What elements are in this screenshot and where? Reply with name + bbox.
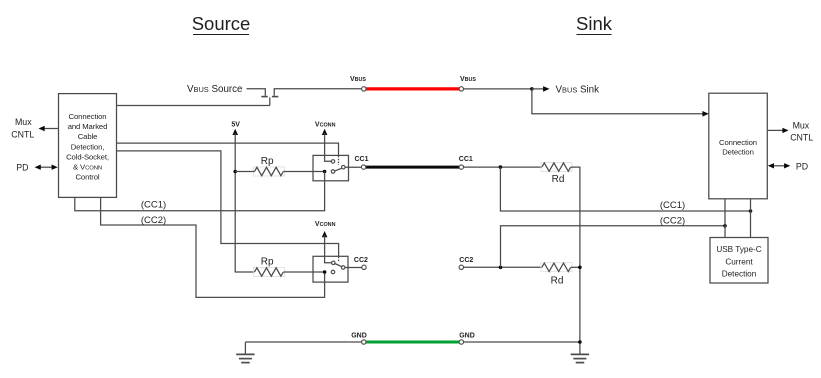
power VCONN (CC1)	[315, 122, 336, 135]
node CC1 source side	[354, 156, 368, 170]
node GND sink side	[459, 333, 475, 345]
wire Mux CNTL arrow (sink)	[767, 128, 788, 133]
svg-text:VBUS Sink: VBUS Sink	[556, 84, 600, 95]
wire Rp1 to SW1	[283, 171, 324, 173]
svg-text:Control: Control	[75, 173, 99, 182]
junction VBUS sink	[530, 87, 534, 91]
node VBUS sink side	[459, 76, 476, 91]
transistor Q1 VBUS pass FET	[261, 88, 278, 105]
switch SW1 (CC1)	[313, 155, 349, 180]
svg-text:(CC2): (CC2)	[660, 215, 685, 226]
wire U2 to U3 left	[724, 199, 726, 238]
cable CC1 (black)	[366, 166, 460, 169]
svg-text:GND: GND	[459, 333, 475, 340]
svg-text:Mux: Mux	[15, 117, 32, 127]
node CC2 sink side	[459, 257, 473, 270]
svg-text:VCONN: VCONN	[315, 221, 336, 228]
resistor Rp (CC2)	[254, 256, 285, 276]
wire U2 to U3 right	[750, 199, 752, 238]
svg-text:CC2: CC2	[459, 257, 473, 264]
svg-text:Current: Current	[725, 257, 753, 266]
junction (CC2) at U2	[723, 224, 727, 228]
wire 5V to Rp1	[235, 171, 254, 173]
svg-text:VBUS: VBUS	[460, 76, 476, 83]
svg-text:Sink: Sink	[576, 13, 613, 34]
ground (source)	[236, 342, 254, 363]
svg-text:(CC1): (CC1)	[660, 200, 685, 211]
svg-text:CC2: CC2	[354, 257, 368, 264]
svg-text:CC1: CC1	[459, 156, 473, 163]
block U1 Connection and Marked Cable Detection Cold-Socket and VCONN Control	[59, 94, 117, 198]
wire (CC1) sense sink side	[500, 167, 750, 211]
junction Rp2 CC2 sense	[323, 270, 327, 274]
wire VCONN into SW2	[325, 235, 332, 263]
svg-text:Rd: Rd	[551, 276, 564, 287]
junction Rd2 ground rail	[578, 266, 582, 270]
svg-text:5V: 5V	[231, 122, 240, 129]
svg-text:PD: PD	[16, 163, 28, 173]
wire (CC2) sense sink side	[501, 215, 726, 267]
wire (CC2) sense source side	[101, 197, 325, 297]
svg-text:Connection: Connection	[69, 112, 107, 121]
svg-text:USB Type-C: USB Type-C	[716, 245, 761, 254]
svg-text:CNTL: CNTL	[790, 132, 813, 142]
block U3 USB Type-C Current Detection	[710, 238, 768, 284]
junction GND rail	[578, 340, 582, 344]
wire (CC1) sense source side	[75, 172, 325, 211]
svg-text:Rp: Rp	[261, 256, 274, 267]
svg-text:CC1: CC1	[354, 156, 368, 163]
svg-text:PD: PD	[796, 162, 808, 172]
wire PD arrow (source)	[35, 165, 58, 170]
wire GND source	[245, 341, 361, 343]
wire Mux CNTL arrow (source)	[39, 126, 59, 131]
wire Rd2 to ground rail	[571, 266, 580, 268]
svg-text:Detection: Detection	[722, 270, 757, 279]
node GND source side	[351, 333, 367, 345]
wire Rd1 to ground rail	[571, 167, 580, 354]
cable GND (green)	[366, 341, 460, 344]
svg-text:Detection,: Detection,	[71, 142, 105, 151]
wire VCONN into SW1	[325, 133, 332, 161]
junction CC2 sense	[499, 266, 503, 270]
resistor Rp (CC1)	[254, 156, 285, 176]
resistor Rd (CC2)	[541, 263, 572, 287]
wire control A U1 to SW1 actuator	[117, 143, 339, 155]
wire VBUS Source to FET	[247, 88, 266, 90]
wire FET gate to U1	[117, 105, 270, 107]
node CC2 source side	[354, 257, 368, 270]
wire GND sink	[464, 341, 580, 343]
wire CC2 node to Rd2	[464, 266, 542, 268]
wire Rp2 to SW2	[283, 271, 324, 273]
wire FET drain to VBUS node	[274, 88, 362, 90]
junction 5V to Rp1	[233, 170, 237, 174]
svg-text:Connection: Connection	[719, 138, 757, 147]
svg-text:VCONN: VCONN	[315, 122, 336, 129]
svg-text:and Marked: and Marked	[68, 122, 108, 131]
wire CC1 node to Rd1	[464, 166, 542, 168]
wire PD arrow (sink)	[768, 163, 791, 168]
junction CC1 sense	[499, 165, 503, 169]
junction Rp1 CC1 sense	[323, 170, 327, 174]
node VBUS source side	[350, 76, 366, 91]
wire SW1 to CC1 node	[345, 166, 361, 168]
wire 5V rail	[235, 133, 254, 272]
label Mux CNTL (source)	[11, 117, 34, 140]
svg-text:Detection: Detection	[722, 148, 754, 157]
node CC1 sink side	[459, 156, 473, 170]
svg-text:(CC2): (CC2)	[141, 215, 166, 226]
svg-text:(CC1): (CC1)	[141, 200, 166, 211]
svg-text:Cable: Cable	[78, 132, 98, 141]
svg-text:Cold-Socket,: Cold-Socket,	[66, 152, 109, 161]
block U2 Connection Detection	[709, 93, 768, 199]
svg-text:Rd: Rd	[552, 174, 565, 185]
switch SW2 (CC2)	[313, 256, 348, 282]
svg-text:VBUS Source: VBUS Source	[187, 84, 243, 95]
ground (sink)	[571, 354, 589, 362]
svg-text:VBUS: VBUS	[350, 76, 366, 83]
svg-text:CNTL: CNTL	[11, 130, 34, 140]
svg-text:Source: Source	[192, 13, 251, 34]
resistor Rd (CC1)	[541, 163, 572, 186]
wire arrow to VBUS Sink label	[532, 86, 550, 92]
wire control B U1 to SW2 actuator	[117, 151, 339, 256]
wire SW2 to CC2 node	[345, 267, 362, 269]
title Sink	[576, 13, 613, 35]
label Mux CNTL (sink)	[790, 121, 813, 143]
svg-text:GND: GND	[351, 333, 367, 340]
title Source	[192, 13, 251, 35]
svg-text:Rp: Rp	[261, 156, 274, 167]
wire VBUS node to sink junction	[464, 88, 532, 90]
junction (CC1) at U2	[749, 209, 753, 213]
power 5V	[231, 122, 240, 135]
cable VBUS (red)	[366, 87, 460, 90]
power VCONN (CC2)	[315, 221, 336, 237]
svg-text:Mux: Mux	[793, 121, 810, 131]
wire VBUS to Connection Detection	[532, 89, 709, 117]
